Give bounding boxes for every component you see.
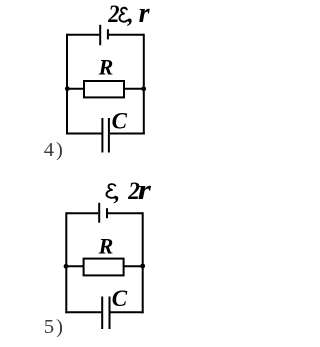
svg-text:,: , xyxy=(113,180,120,206)
resistor R (circuit 5) xyxy=(84,259,124,276)
svg-text:R: R xyxy=(98,234,114,259)
resistor R (circuit 4) xyxy=(84,81,124,97)
battery E2 long plate (circuit 5) xyxy=(98,203,100,223)
svg-text:C: C xyxy=(112,109,128,134)
wire: circuit 5 top wire left segment xyxy=(66,212,98,214)
wire: circuit 4 bottom wire left segment xyxy=(66,133,102,135)
svg-text:C: C xyxy=(112,286,128,311)
wire: circuit 5 left side xyxy=(65,212,67,313)
wire: circuit 4 right side xyxy=(143,34,145,135)
capacitor C right plate (circuit 5) xyxy=(109,297,111,330)
node: circuit 4 left junction xyxy=(65,86,70,91)
battery E1 short plate (circuit 4) xyxy=(107,29,109,39)
wire: circuit 4 bottom wire right segment xyxy=(110,133,145,135)
wire: circuit 5 bottom wire left segment xyxy=(65,311,101,313)
wire: circuit 4 top wire right segment xyxy=(109,34,144,36)
svg-text:,: , xyxy=(127,2,134,28)
battery E2 short plate (circuit 5) xyxy=(106,208,108,218)
wire: circuit 5 top wire right segment xyxy=(108,212,143,214)
wire: circuit 5 middle branch left xyxy=(66,265,84,267)
svg-text:r: r xyxy=(139,0,151,29)
wire: circuit 4 middle branch left xyxy=(67,88,85,90)
svg-text:R: R xyxy=(98,55,114,80)
wire: circuit 4 top wire left segment xyxy=(67,34,99,36)
svg-text:5): 5) xyxy=(44,316,65,338)
svg-text:4): 4) xyxy=(44,139,65,161)
value label "ε" of 2ε, r (circuit 4) xyxy=(119,8,127,22)
wire: circuit 5 bottom wire right segment xyxy=(111,311,144,313)
wire: circuit 4 middle branch right xyxy=(124,88,144,90)
capacitor C left plate (circuit 4) xyxy=(101,118,103,153)
value label "ε" of ε, 2r (circuit 5) xyxy=(107,184,116,198)
node: circuit 4 right junction xyxy=(141,86,146,91)
node: circuit 5 left junction xyxy=(64,264,69,269)
capacitor C right plate (circuit 4) xyxy=(108,118,110,153)
svg-text:2: 2 xyxy=(107,1,119,28)
svg-text:r: r xyxy=(138,174,152,206)
capacitor C left plate (circuit 5) xyxy=(101,297,103,330)
wire: circuit 5 middle branch right xyxy=(124,265,143,267)
battery E1 long plate (circuit 4) xyxy=(99,25,101,45)
node: circuit 5 right junction xyxy=(140,264,145,269)
wire: circuit 4 left side xyxy=(66,34,68,135)
wire: circuit 5 right side xyxy=(142,212,144,313)
